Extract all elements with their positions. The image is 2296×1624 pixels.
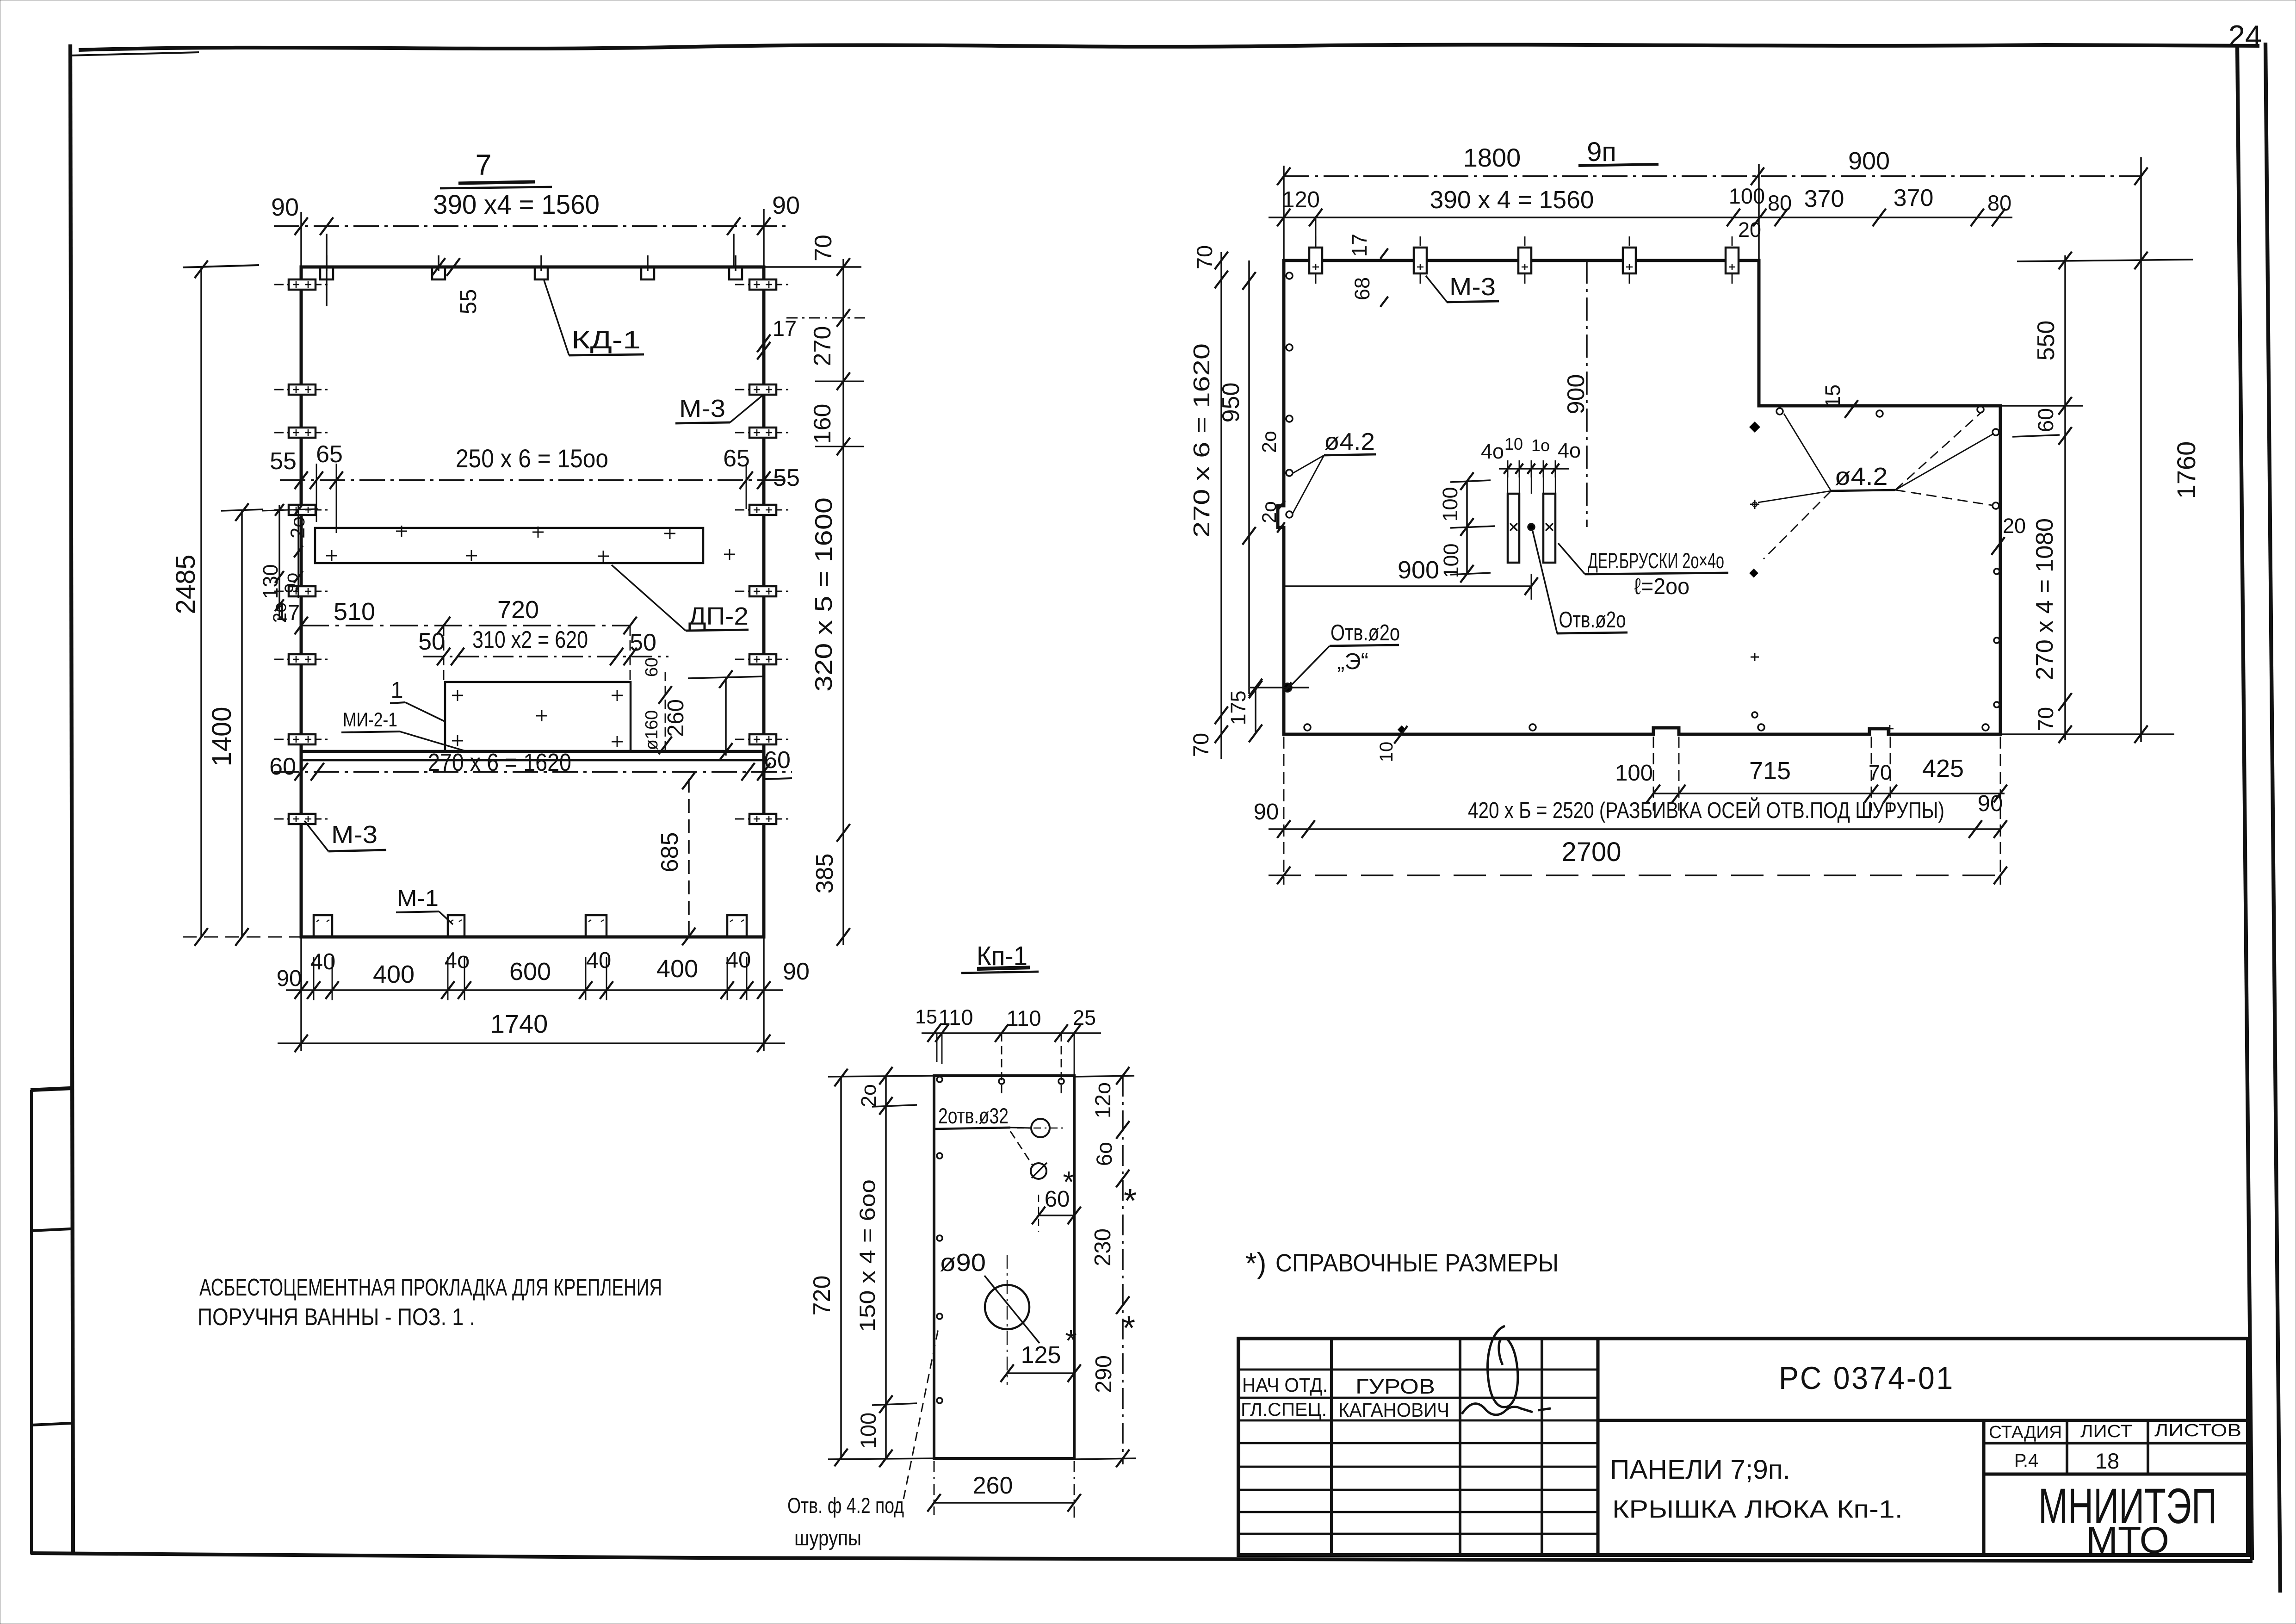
svg-text:1800: 1800 (1463, 143, 1521, 172)
svg-text:АСБЕСТОЦЕМЕНТНАЯ ПРОКЛАДКА: АСБЕСТОЦЕМЕНТНАЯ ПРОКЛАДКА ДЛЯ КРЕПЛЕНИЯ (199, 1274, 662, 1301)
Kp-1 left dim column 20/150x4=600/100 (885, 1076, 887, 1458)
svg-text:60: 60 (269, 753, 296, 780)
svg-text:60: 60 (2033, 408, 2058, 432)
svg-text:90: 90 (271, 193, 299, 221)
svg-text:1: 1 (390, 678, 403, 703)
svg-text:17: 17 (1348, 234, 1371, 257)
svg-text:400: 400 (656, 955, 698, 983)
svg-text:270 x 6 = 1620: 270 x 6 = 1620 (1189, 343, 1214, 538)
svg-text:720: 720 (809, 1276, 835, 1316)
title block left section row lines (1238, 1369, 1598, 1371)
svg-text:40: 40 (586, 948, 612, 973)
svg-text:ø160: ø160 (642, 710, 662, 750)
panel 7 outline (301, 267, 764, 937)
svg-text:260: 260 (973, 1472, 1013, 1499)
svg-text:70: 70 (2033, 707, 2058, 731)
svg-text:90: 90 (772, 192, 800, 219)
svg-text:250 х 6 = 15оо: 250 х 6 = 15оо (456, 444, 608, 473)
svg-text:6о: 6о (1092, 1142, 1116, 1166)
svg-text:М-1: М-1 (397, 886, 439, 911)
panel 9p left dim 950 (1248, 260, 1250, 694)
svg-text:90: 90 (277, 966, 302, 991)
svg-text:КРЫШКА ЛЮКА Кп-1.: КРЫШКА ЛЮКА Кп-1. (1612, 1495, 1903, 1523)
screw holes under notch line and right edge (1776, 408, 1783, 415)
svg-text:950: 950 (1218, 383, 1244, 423)
block dims 100/100 (1466, 481, 1468, 574)
svg-text:4о: 4о (1481, 440, 1504, 463)
svg-text:М-3: М-3 (679, 395, 725, 422)
svg-text:15: 15 (1821, 384, 1844, 408)
svg-text:510: 510 (334, 598, 375, 626)
svg-text:ДП-2: ДП-2 (688, 602, 749, 630)
M-3 plates on panel 7 left edge (274, 284, 330, 285)
svg-text:80: 80 (1768, 191, 1792, 215)
svg-text:шурупы: шурупы (794, 1525, 861, 1550)
panel 7 right dimension column 70/270/160/320x5=1600/385 (842, 259, 844, 945)
svg-text:*: * (1124, 1183, 1137, 1220)
svg-text:М-3: М-3 (331, 821, 378, 849)
Kp-1 plate outline (934, 1076, 1074, 1458)
gasket pos.1 rectangle (445, 682, 631, 752)
svg-text:100: 100 (1439, 543, 1463, 578)
svg-text:715: 715 (1749, 757, 1791, 785)
svg-text:270 x 4 = 1080: 270 x 4 = 1080 (2031, 518, 2058, 680)
svg-text:400: 400 (373, 961, 415, 988)
title block main horizontal divider (1598, 1419, 2248, 1422)
svg-text:175: 175 (1226, 690, 1250, 725)
svg-text:55: 55 (456, 289, 481, 315)
panel 9p right dim column 550/60/270x4=1080/70 (2064, 255, 2066, 740)
svg-text:1о: 1о (1531, 436, 1550, 455)
svg-text:7: 7 (475, 149, 491, 181)
svg-text:18: 18 (2095, 1449, 2119, 1473)
svg-text:270 x 6 = 1620: 270 x 6 = 1620 (428, 749, 571, 776)
svg-text:1740: 1740 (490, 1009, 548, 1038)
svg-text:100: 100 (1729, 184, 1765, 208)
title block vertical dividers (1330, 1339, 1333, 1555)
svg-text:125: 125 (1021, 1342, 1061, 1369)
Kp-1 top dim row 15/110/110/25 (922, 1032, 1101, 1034)
panel 7 dim row 250x6=1500 with 55/65 margins (280, 479, 786, 481)
svg-text:ø4.2: ø4.2 (1324, 428, 1375, 455)
title block outline (1238, 1339, 2248, 1555)
panel 7 overall height dim 2485 (200, 267, 202, 937)
panel 7 dim row 270x6=1620 with 60 margins (274, 771, 792, 773)
svg-text:2о: 2о (857, 1084, 880, 1107)
gasket strip DP-2 rectangle (315, 528, 703, 563)
holes 2otv o32 (1031, 1119, 1050, 1137)
svg-text:50: 50 (630, 629, 656, 656)
svg-text:900: 900 (1398, 556, 1439, 584)
svg-text:110: 110 (1007, 1006, 1041, 1030)
svg-text:600: 600 (509, 958, 551, 986)
panel 7 dim 1400 (241, 511, 243, 937)
page border right inner edge (2237, 44, 2252, 1560)
svg-text:2485: 2485 (171, 554, 201, 614)
dim 900 horizontal (1284, 585, 1531, 587)
svg-text:270: 270 (809, 326, 836, 366)
svg-text:ø90: ø90 (940, 1249, 986, 1277)
svg-text:9о: 9о (281, 573, 302, 594)
svg-text:55: 55 (270, 448, 297, 475)
svg-text:685: 685 (656, 832, 683, 873)
svg-text:10: 10 (1376, 742, 1397, 762)
M-1 feet on panel 7 bottom edge (314, 915, 332, 937)
panel 7 bottom dim row 90/40/400/40/600/40/400/40/90 (286, 989, 783, 991)
svg-text:МТО: МТО (2086, 1519, 2169, 1561)
panel 7 top dimension row 390x4=1560 (274, 225, 786, 227)
svg-text:2о: 2о (1258, 501, 1281, 523)
svg-text:РС 0374-01: РС 0374-01 (1779, 1360, 1955, 1396)
svg-text:17: 17 (773, 316, 797, 341)
dim o160 and 60 (665, 672, 666, 752)
svg-text:260: 260 (663, 699, 688, 737)
page border top edge (79, 45, 2259, 50)
svg-text:65: 65 (723, 445, 750, 472)
hook offset dim 55 (432, 258, 446, 276)
page border left edge (70, 44, 73, 1555)
dim 260 for pos.1 (725, 677, 727, 756)
svg-text:160: 160 (809, 404, 836, 444)
svg-text:385: 385 (811, 854, 838, 894)
svg-text:1400: 1400 (207, 707, 237, 766)
panel 7 left small dim cluster 130/90/20/20 (278, 505, 280, 619)
svg-text:25: 25 (1073, 1006, 1096, 1029)
svg-text:150 х 4 = 6оо: 150 х 4 = 6оо (855, 1179, 879, 1332)
panel 7 dim row 17/510/720 (301, 625, 630, 626)
svg-text:МИ-2-1: МИ-2-1 (343, 709, 397, 731)
svg-text:60: 60 (642, 657, 662, 677)
svg-text:9п: 9п (1587, 137, 1616, 167)
svg-text:40: 40 (310, 949, 336, 974)
left margin stamp box column (30, 1090, 33, 1554)
svg-text:Отв.ø2о: Отв.ø2о (1331, 620, 1400, 645)
svg-text:Отв. ф 4.2 под: Отв. ф 4.2 под (787, 1493, 904, 1518)
svg-text:4о: 4о (1558, 439, 1581, 462)
screw holes left column (1286, 273, 1293, 279)
svg-text:425: 425 (1922, 755, 1964, 782)
svg-text:15: 15 (915, 1006, 937, 1028)
dim 685 (688, 779, 690, 937)
svg-text:„Э“: „Э“ (1337, 649, 1368, 674)
svg-text:70: 70 (1869, 761, 1892, 784)
svg-text:ГЛ.СПЕЦ.: ГЛ.СПЕЦ. (1241, 1400, 1327, 1420)
svg-text:120: 120 (1282, 187, 1320, 212)
panel 9p bottom dim row 100/715/70/425 (1653, 793, 2005, 794)
svg-text:*): *) (1245, 1247, 1267, 1280)
svg-text:50: 50 (418, 628, 445, 655)
svg-text:НАЧ ОТД.: НАЧ ОТД. (1242, 1374, 1328, 1396)
Kp-1 screw holes (937, 1077, 942, 1082)
svg-text:420 х Б = 2520 (РАЗБИВКА ОСЕЙ: 420 х Б = 2520 (РАЗБИВКА ОСЕЙ ОТВ.ПОД ШУ… (1468, 798, 1944, 823)
svg-text:ЛИСТОВ: ЛИСТОВ (2154, 1421, 2241, 1440)
svg-text:М-3: М-3 (1449, 273, 1496, 301)
panel 9p bottom dim row 420xB=2520 (1269, 828, 2000, 830)
svg-text:2отв.ø32: 2отв.ø32 (938, 1103, 1009, 1128)
panel 9p left dim column 70/270x6=1620/70 (1220, 252, 1222, 759)
svg-text:Р.4: Р.4 (2014, 1450, 2038, 1471)
svg-text:900: 900 (1563, 374, 1590, 415)
svg-text:370: 370 (1894, 185, 1934, 211)
M-3 plates on panel 9p top edge (1315, 236, 1317, 286)
panel 9p dim row 120/390x4=1560/100/80/370/370/80 (1269, 217, 2012, 218)
svg-text:230: 230 (1090, 1228, 1115, 1266)
signature flourish (1487, 1326, 1517, 1407)
svg-text:4о: 4о (445, 948, 470, 973)
svg-text:ø4.2: ø4.2 (1835, 463, 1888, 490)
wood blocks DER.BRUSKI 20x40 (1508, 494, 1519, 563)
Kp-1 dim 125 (1007, 1372, 1074, 1374)
svg-text:60: 60 (764, 747, 791, 774)
svg-text:СПРАВОЧНЫЕ РАЗМЕРЫ: СПРАВОЧНЫЕ РАЗМЕРЫ (1275, 1249, 1559, 1277)
svg-text:2о: 2о (287, 516, 309, 539)
svg-text:65: 65 (316, 441, 343, 468)
svg-text:1760: 1760 (2172, 441, 2201, 499)
svg-text:12о: 12о (1090, 1082, 1115, 1118)
panel 9p vertical extension right 1760 line (2140, 157, 2142, 742)
Kp-1 left dim 720 (840, 1076, 842, 1458)
panel 9p centre axis dim 900 vertical (1586, 260, 1588, 527)
svg-text:40: 40 (726, 948, 751, 973)
mounting strip MI-2-1 double line (301, 750, 764, 753)
svg-text:СТАДИЯ: СТАДИЯ (1989, 1423, 2062, 1442)
svg-text:55: 55 (773, 465, 800, 491)
page border bottom edge (31, 1553, 2253, 1561)
screw hole centre column marks (1750, 422, 1760, 433)
svg-text:70: 70 (810, 235, 837, 261)
svg-text:100: 100 (856, 1413, 880, 1449)
panel 7 bottom dim 1740 (278, 1042, 785, 1044)
panel 9p top dim 1800/900 (1284, 175, 2141, 177)
M-3 plates on panel 7 right edge (735, 284, 791, 285)
svg-text:100: 100 (1615, 761, 1653, 786)
svg-text:2о: 2о (1258, 431, 1281, 453)
svg-text:900: 900 (1848, 147, 1890, 175)
svg-text:550: 550 (2033, 321, 2060, 361)
screw holes bottom row (1304, 724, 1311, 731)
title block stadiya list listov sub-table (1982, 1420, 1985, 1555)
svg-text:68: 68 (1350, 277, 1374, 300)
svg-text:390 x 4 = 1560: 390 x 4 = 1560 (1430, 186, 1594, 214)
svg-text:80: 80 (1987, 191, 2011, 215)
svg-text:*: * (1063, 1165, 1074, 1199)
svg-text:320 x 5 = 1600: 320 x 5 = 1600 (811, 497, 837, 692)
panel 9p outline with notch (1278, 260, 2000, 734)
svg-text:290: 290 (1091, 1355, 1116, 1393)
svg-text:24: 24 (2228, 19, 2262, 53)
svg-text:Отв.ø2о: Отв.ø2о (1559, 607, 1626, 632)
panel 9p bottom dim 2700 (1269, 874, 2000, 876)
svg-text:ЛИСТ: ЛИСТ (2080, 1422, 2132, 1441)
page border right outer edge (2265, 43, 2280, 1593)
holes o4.2 on left edge (1286, 470, 1293, 476)
Kp-1 right dim column 120/60/230/290 (1122, 1076, 1124, 1464)
svg-text:*: * (1065, 1324, 1077, 1357)
svg-text:ДЕР.БРУСКИ 2о×4о: ДЕР.БРУСКИ 2о×4о (1588, 548, 1724, 573)
hole E otv o20 with label (1283, 683, 1292, 692)
svg-text:20: 20 (1738, 218, 1761, 242)
svg-text:90: 90 (1978, 791, 2003, 816)
svg-text:310 x2 = 620: 310 x2 = 620 (472, 626, 588, 653)
svg-text:110: 110 (939, 1005, 973, 1029)
block dims 40/10/10/40 (1499, 468, 1569, 470)
svg-text:*: * (1122, 1310, 1135, 1347)
svg-text:ГУРОВ: ГУРОВ (1355, 1375, 1435, 1398)
svg-text:КД-1: КД-1 (571, 326, 641, 354)
svg-text:390 x4 = 1560: 390 x4 = 1560 (433, 190, 600, 220)
svg-text:100: 100 (1438, 487, 1462, 521)
svg-text:20: 20 (2003, 514, 2026, 538)
dim 175 bottom left (1255, 688, 1256, 734)
svg-text:ПОРУЧНЯ ВАННЫ - ПОЗ. 1 .: ПОРУЧНЯ ВАННЫ - ПОЗ. 1 . (198, 1304, 475, 1331)
Kp-1 bottom dim 260 (934, 1502, 1074, 1504)
svg-text:17: 17 (276, 600, 300, 625)
svg-text:КАГАНОВИЧ: КАГАНОВИЧ (1338, 1399, 1449, 1421)
Kp-1 dim 60 upper right (1039, 1215, 1074, 1216)
panel 7 dim row 50/310x2=620/50 (423, 656, 668, 657)
svg-text:90: 90 (783, 958, 810, 985)
svg-text:720: 720 (497, 596, 539, 624)
svg-text:2700: 2700 (1561, 837, 1621, 867)
svg-text:90: 90 (1254, 800, 1279, 824)
svg-text:10: 10 (1504, 434, 1523, 453)
svg-text:ℓ=2оо: ℓ=2оо (1634, 574, 1690, 599)
svg-text:ПАНЕЛИ 7;9п.: ПАНЕЛИ 7;9п. (1610, 1455, 1790, 1485)
svg-text:70: 70 (1188, 733, 1213, 757)
panel 7 KD-1 hooks on top edge (320, 268, 333, 279)
svg-text:130: 130 (259, 564, 282, 599)
svg-text:70: 70 (1192, 245, 1217, 269)
svg-text:370: 370 (1804, 186, 1844, 212)
